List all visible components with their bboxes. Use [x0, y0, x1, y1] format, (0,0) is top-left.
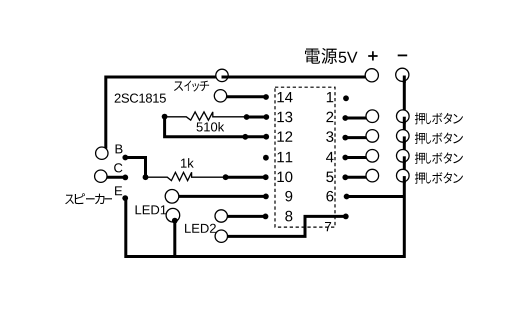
IC U1 dashed outline	[275, 87, 335, 227]
junction dot pin 4	[342, 155, 348, 161]
label 押しボタン 1	[415, 112, 463, 124]
LED2 terminal bottom	[215, 230, 227, 242]
label スピーカー	[65, 193, 112, 204]
pin number 2	[326, 112, 333, 122]
power terminal +	[365, 69, 378, 82]
pin number 7	[325, 222, 331, 231]
junction dot pin 8	[263, 214, 269, 220]
label 電源5V	[305, 48, 358, 64]
pin number 14	[277, 92, 283, 102]
junction dot R2 right	[223, 174, 229, 180]
junction dot base B	[122, 155, 128, 161]
pushbutton S1 contact a	[366, 110, 379, 123]
junction dot R1 left	[162, 114, 168, 120]
junction dot pin 9	[263, 194, 269, 200]
pin number 1	[327, 92, 333, 102]
junction dot pin 7	[343, 214, 349, 220]
pin number 5	[326, 172, 333, 182]
pin number 11	[277, 152, 283, 162]
wire R1 to pin 13	[247, 116, 267, 119]
pin number 13	[277, 112, 283, 122]
wire LED1 cathode to ground bus	[173, 220, 176, 257]
junction dot emitter E	[122, 195, 128, 201]
pushbutton S2 contact b	[397, 130, 410, 143]
junction dot pin 10	[263, 174, 269, 180]
junction dot pin 13	[263, 114, 269, 120]
wire pin 4 to pushbutton S3	[345, 156, 367, 159]
pin number 9	[285, 191, 292, 202]
LED2 terminal top	[215, 210, 227, 222]
pushbutton S3 contact a	[366, 150, 379, 163]
speaker terminal 1	[96, 147, 108, 159]
junction dot pin 2	[342, 115, 348, 121]
pin number 4	[326, 152, 334, 162]
label 押しボタン 4	[415, 172, 463, 184]
label LED2	[185, 224, 191, 233]
transistor Q1 label 2SC1815	[115, 94, 121, 103]
resistor R2 1k to pin 10	[146, 172, 226, 180]
wire switch to pin 14	[226, 95, 266, 98]
junction dot R2 left node	[143, 174, 149, 180]
value label 1k	[181, 159, 187, 168]
speaker terminal 2	[95, 170, 107, 182]
junction dot R1 right	[244, 114, 250, 120]
wire collector C to speaker terminal	[103, 176, 125, 179]
wire R1 bottom leg to pin 12	[165, 117, 267, 137]
wire pin 6 to ground bus	[348, 195, 406, 198]
label −	[398, 54, 408, 56]
pushbutton S4 contact b	[397, 169, 410, 182]
junction dot collector C	[122, 175, 128, 181]
wire pin 3 to pushbutton S2	[345, 136, 367, 139]
pushbutton S4 stem stub	[403, 176, 406, 183]
pushbutton S2 contact a	[366, 130, 379, 143]
wire R2 to pin 10	[226, 176, 267, 179]
junction dot pin 1	[343, 95, 349, 101]
wire LED1 anode to pin 9	[179, 195, 267, 198]
wire pin 2 to pushbutton S1	[345, 117, 367, 120]
pushbutton S1 stem stub	[403, 117, 406, 124]
resistor R1 510k between pin 13 and pin 12	[165, 112, 247, 120]
junction dot pin 5	[342, 174, 348, 180]
value label 510k	[197, 122, 203, 131]
wire +5V rail from top-left corner to + terminal	[106, 77, 367, 149]
wire LED2 anode to pin 8	[227, 215, 265, 218]
power terminal −	[396, 68, 409, 81]
label 押しボタン 2	[415, 132, 463, 144]
junction dot on pin-12 wire	[242, 134, 248, 140]
pushbutton S1 contact b	[397, 110, 410, 123]
label 押しボタン 3	[415, 152, 463, 164]
junction dot pin 12	[263, 134, 269, 140]
label LED1	[136, 205, 142, 214]
label +	[368, 51, 377, 60]
wire ground bus: emitter down, bottom bus, riser to - terminal	[126, 75, 405, 257]
junction dot LED1 cathode	[172, 218, 178, 224]
wire pin 5 to pushbutton S4	[345, 176, 367, 179]
pin number 10	[277, 172, 283, 182]
pushbutton S3 contact b	[397, 150, 410, 163]
pin number 8	[285, 211, 292, 222]
junction dot pin 3	[342, 135, 348, 141]
LED1 terminal top	[165, 190, 179, 204]
label スイッチ	[174, 80, 209, 91]
junction dot pin 6	[344, 194, 350, 200]
pin number 3	[326, 131, 333, 142]
terminal label C	[114, 163, 122, 172]
junction dot pin 11	[263, 155, 269, 161]
wedge stub at − terminal	[403, 76, 406, 84]
pin number 6	[326, 191, 333, 202]
switch SW1 wedge stub	[222, 76, 230, 79]
junction dot pin 14	[263, 94, 269, 100]
switch SW1 terminal 2	[214, 90, 226, 102]
switch SW1 terminal 1	[216, 69, 228, 81]
pushbutton S2 stem stub	[403, 136, 406, 143]
terminal label E	[115, 186, 122, 195]
pin number 12	[277, 131, 283, 141]
wire LED2 cathode to pin 7	[227, 216, 345, 236]
pushbutton S3 stem stub	[403, 156, 406, 163]
pushbutton S4 contact a	[366, 169, 379, 182]
LED1 terminal bottom	[166, 208, 180, 222]
terminal label B	[116, 144, 123, 153]
wire transistor base B to resistor R2	[125, 158, 145, 178]
